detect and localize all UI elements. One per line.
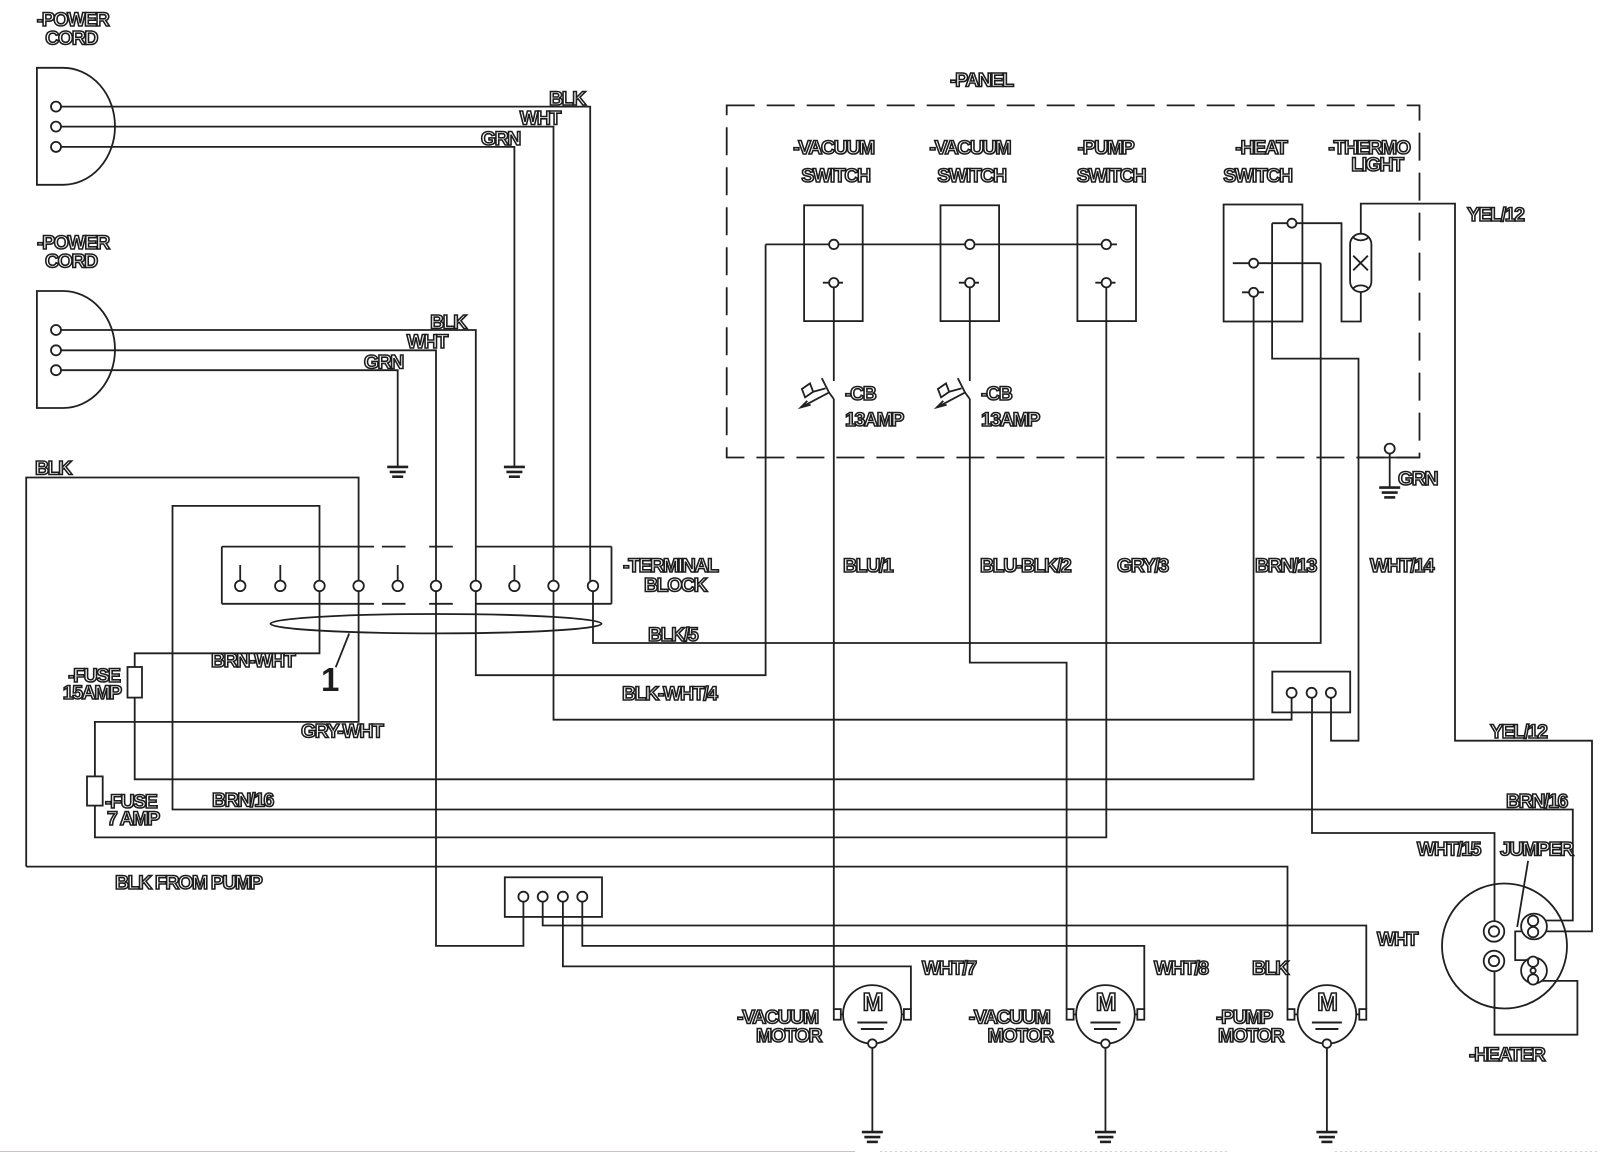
vacuum motor 2 <box>1076 985 1135 1044</box>
heater pin group upper right <box>1521 914 1547 940</box>
cable bundle ellipse <box>271 614 602 633</box>
wire: power cord 1 BLK to terminal 10 <box>61 107 590 581</box>
jumper pointer <box>1517 861 1528 927</box>
svg-text:BLK: BLK <box>1252 958 1289 980</box>
svg-text:BLK: BLK <box>35 458 72 480</box>
svg-text:WHT: WHT <box>520 108 562 130</box>
pump motor <box>1298 985 1357 1044</box>
svg-text:-CB: -CB <box>981 383 1013 405</box>
svg-text:BLU-BLK/2: BLU-BLK/2 <box>980 555 1072 577</box>
vacuum switch 2 terminals <box>965 240 974 249</box>
wire: heat switch top terminal to WHT/14 connector pin 3 <box>1272 223 1358 741</box>
wire: BLK-WHT/4 terminal 9 to connector <box>554 591 1292 720</box>
circuit breaker CB1 13AMP <box>801 378 829 407</box>
power cord 2 plug body <box>37 291 115 408</box>
wire: GRY-WHT terminal 4 to fuse 7AMP <box>95 591 359 776</box>
heater plug body <box>1442 884 1567 1009</box>
terminal block outline <box>222 546 612 548</box>
power cord 2 pin 2 <box>51 345 61 355</box>
svg-text:-PANEL: -PANEL <box>950 69 1014 91</box>
svg-text:13AMP: 13AMP <box>981 409 1040 431</box>
svg-text:CORD: CORD <box>45 251 98 273</box>
svg-text:GRN: GRN <box>1398 468 1437 490</box>
wire: connector pin 2 WHT to pump motor <box>543 902 1367 1009</box>
svg-text:BRN/16: BRN/16 <box>212 790 275 812</box>
svg-text:BRN/16: BRN/16 <box>1506 791 1569 813</box>
svg-text:BLK/5: BLK/5 <box>648 624 699 646</box>
scan artifact line <box>0 1151 855 1153</box>
svg-text:WHT/14: WHT/14 <box>1370 555 1435 577</box>
thermo light DS1 <box>1350 234 1371 292</box>
wire: power cord 2 BLK to terminal 7 <box>61 330 476 581</box>
wire: BLK/5 terminal 10 to panel switches <box>593 263 1321 643</box>
svg-text:GRN: GRN <box>364 352 403 374</box>
heat switch body <box>1224 205 1303 322</box>
svg-text:GRN: GRN <box>481 128 520 150</box>
svg-text:SWITCH: SWITCH <box>1077 165 1146 187</box>
wire: BLU/1 vacuum switch 1 to vacuum motor 1 <box>833 287 835 381</box>
wire: heater jumper link <box>1515 931 1528 960</box>
power cord 2 pin 1 <box>51 325 61 335</box>
svg-text:13AMP: 13AMP <box>845 409 904 431</box>
svg-text:15AMP: 15AMP <box>63 682 122 704</box>
svg-text:YEL/12: YEL/12 <box>1467 204 1525 226</box>
heater pin lower left <box>1484 951 1505 972</box>
vacuum switch 1 body <box>804 205 863 321</box>
svg-text:-HEAT: -HEAT <box>1235 137 1288 159</box>
svg-text:BLK-WHT/4: BLK-WHT/4 <box>622 683 718 705</box>
svg-text:GRY-WHT: GRY-WHT <box>301 721 384 743</box>
panel GRN chassis ground <box>1385 444 1395 454</box>
ground (power cord 1 GRN) <box>504 466 525 469</box>
terminal stubs <box>240 565 514 581</box>
svg-text:-HEATER: -HEATER <box>1469 1044 1546 1066</box>
svg-text:7 AMP: 7 AMP <box>107 808 160 830</box>
svg-text:M: M <box>1096 989 1116 1017</box>
wire: power cord 2 WHT to terminal 6 <box>61 350 436 580</box>
wire: heat switch top stub to thermo light <box>1272 223 1361 321</box>
pump switch bottom stub <box>1095 282 1115 284</box>
ground (power cord 2 GRN) <box>387 466 408 469</box>
wire: fuse 15AMP to BRN/13 heat switch <box>135 297 1254 779</box>
wire: power cord 2 GRN to ground <box>61 370 398 467</box>
power cord 2 pin 3 <box>51 365 61 375</box>
svg-text:-PUMP: -PUMP <box>1078 137 1135 159</box>
svg-text:CORD: CORD <box>45 27 98 49</box>
vacuum switch 2 body <box>941 205 1000 321</box>
svg-text:-CB: -CB <box>845 383 877 405</box>
wire: BLK FROM PUMP to pump motor <box>26 867 1287 1010</box>
svg-text:JUMPER: JUMPER <box>1500 839 1574 861</box>
wire: heat switch middle stub <box>1233 262 1321 264</box>
wire: connector pin 2 to WHT/15 heater <box>1312 698 1495 921</box>
vacuum switch 2 bottom stub <box>959 282 979 284</box>
svg-text:WHT: WHT <box>407 331 449 353</box>
heater connector pins <box>1287 688 1297 698</box>
callout 1 pointer <box>336 634 350 668</box>
wire: BLU-BLK/2 vacuum switch 2 to vacuum motor 2 <box>969 287 971 381</box>
heater connector (3-pin) <box>1272 672 1350 713</box>
svg-text:1: 1 <box>321 661 339 698</box>
fuse F1 15AMP <box>128 667 143 698</box>
svg-text:WHT/7: WHT/7 <box>922 958 976 980</box>
svg-text:LIGHT: LIGHT <box>1351 154 1404 176</box>
heat switch terminals <box>1287 219 1296 228</box>
svg-text:BLK FROM PUMP: BLK FROM PUMP <box>115 872 263 894</box>
wire: BRN-WHT terminal 3 to fuse 15AMP <box>135 591 320 667</box>
power cord 1 pin 2 <box>51 122 61 132</box>
svg-text:SWITCH: SWITCH <box>1223 165 1292 187</box>
svg-text:MOTOR: MOTOR <box>988 1025 1055 1047</box>
svg-text:WHT: WHT <box>1377 929 1419 951</box>
fuse F2 7AMP <box>87 776 103 805</box>
power cord 1 pin 3 <box>51 142 61 152</box>
wire: panel bottom solid segment at GRN <box>1358 457 1420 459</box>
wire: BRN/16 terminal 3 to heater <box>173 506 1573 921</box>
svg-text:YEL/12: YEL/12 <box>1490 721 1548 743</box>
svg-text:-VACUUM: -VACUUM <box>793 137 874 159</box>
wire: panel bus drop to terminal 7 <box>476 244 766 675</box>
wire: heat switch bottom stub <box>1242 291 1264 293</box>
wire: connector pin 4 WHT/8 to vacuum motor 2 <box>582 902 1144 1009</box>
svg-text:SWITCH: SWITCH <box>937 165 1006 187</box>
svg-text:BLOCK: BLOCK <box>644 575 708 597</box>
svg-text:SWITCH: SWITCH <box>801 165 870 187</box>
motor connector pins <box>518 892 528 902</box>
svg-text:M: M <box>1317 989 1337 1017</box>
wire: connector pin 3 WHT/7 to vacuum motor 1 <box>563 902 911 1009</box>
pump switch terminals <box>1102 240 1111 249</box>
wire: heater element loop <box>1495 971 1578 1034</box>
svg-text:M: M <box>863 989 883 1017</box>
vacuum switch 1 bottom stub <box>823 282 843 284</box>
svg-text:BRN-WHT: BRN-WHT <box>211 650 296 672</box>
vacuum switch 1 terminals <box>829 240 838 249</box>
power cord 1 plug body <box>37 68 115 185</box>
vacuum motor 1 <box>843 985 902 1044</box>
svg-text:BRN/13: BRN/13 <box>1255 555 1318 577</box>
wire: power cord 1 WHT to terminal 9 <box>61 127 554 581</box>
panel dashed enclosure <box>727 105 1420 457</box>
svg-text:WHT/8: WHT/8 <box>1154 958 1209 980</box>
terminal block terminals 1-10 <box>235 581 246 592</box>
svg-text:WHT/15: WHT/15 <box>1417 839 1482 861</box>
wire: panel top bus <box>766 243 1117 245</box>
svg-text:GRY/3: GRY/3 <box>1117 555 1169 577</box>
svg-text:MOTOR: MOTOR <box>756 1025 823 1047</box>
wire: power cord 1 GRN to ground <box>61 147 514 467</box>
heater pin WHT/15 <box>1484 921 1505 942</box>
svg-text:BLU/1: BLU/1 <box>843 555 894 577</box>
wire: BLK loop from BLK FROM PUMP up to terminal 4 <box>26 478 358 867</box>
motor connector (4-pin) <box>505 877 602 917</box>
power cord 1 pin 1 <box>51 102 61 112</box>
wire: thermo light top lead to YEL/12 <box>1361 204 1592 932</box>
circuit breaker CB2 13AMP <box>937 378 965 407</box>
heater pin group lower right <box>1521 958 1547 984</box>
pump switch body <box>1077 205 1136 321</box>
wire: terminal 6 to motor connector pin 1 <box>436 591 523 946</box>
svg-text:-VACUUM: -VACUUM <box>929 137 1010 159</box>
svg-text:MOTOR: MOTOR <box>1218 1025 1285 1047</box>
wire: fuse 7AMP to GRY/3 pump switch <box>95 287 1106 837</box>
